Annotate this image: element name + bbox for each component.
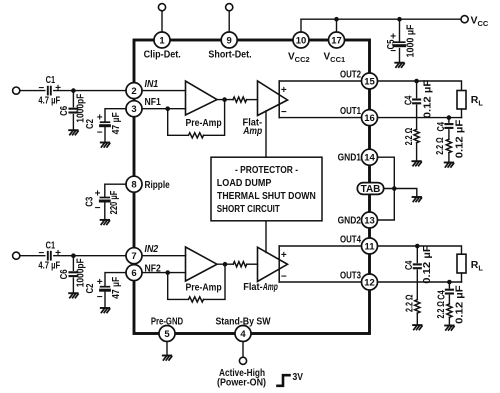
svg-text:15: 15 [364,76,375,87]
ground C6 (ch1) [69,130,78,135]
node OUT3 / Zobel B2 [447,280,452,285]
svg-text:SHORT CIRCUIT: SHORT CIRCUIT [217,203,280,215]
wire pin11 OUT4 to RL [378,246,462,254]
svg-text:+: + [281,85,287,96]
node NF1 feedback tap [165,106,170,111]
node pre-amp1 output [222,97,227,102]
ground Zobel B2 [445,326,454,331]
svg-text:0.12 µF: 0.12 µF [422,245,433,284]
wire C2 to ground (ch2) [104,292,106,307]
pin 11 (OUT4) [362,238,378,254]
wire C4 to 2.2ohm (Zobel B1) [448,130,450,139]
pin 10 (VCC2) [293,32,309,48]
svg-text:0.12 µF: 0.12 µF [423,80,434,119]
wire C4 to 2.2ohm (Zobel A2) [416,270,418,300]
wire C4 to 2.2ohm (Zobel B2) [448,295,450,304]
pin 3 (NF1) [126,101,142,117]
terminal input 2 [13,252,20,259]
node Vcc rail / pin17 [334,17,339,22]
wire OUT4 to C4 (Zobel A2) [416,246,418,263]
svg-text:5: 5 [164,329,170,340]
svg-text:C2: C2 [85,283,96,293]
ground TAB [413,197,422,202]
svg-text:C2: C2 [85,119,96,129]
terminal Short-Det. [226,4,233,11]
wire IN1 to pre-amp1 [142,90,186,92]
wire C6 to ground (ch2) [72,278,74,292]
svg-text:LOAD DUMP: LOAD DUMP [217,177,272,189]
pin 9 (Short-Det.) [221,32,237,48]
resistor 2.2ohm (Zobel A2) [415,300,420,314]
svg-text:3: 3 [131,104,136,115]
ground C2 (ch1) [101,143,110,148]
svg-text:4: 4 [240,329,246,340]
wire C3 to ground [104,203,106,219]
pin 15 (OUT2) [362,73,378,89]
ground Pre-GND [163,356,172,361]
svg-text:−: − [38,248,44,259]
wire pin1 to Clip-Det terminal [161,11,163,32]
svg-text:13: 13 [364,215,375,226]
wire Vcc rail [301,18,461,20]
pin 6 (NF2) [126,265,142,281]
node NF2 feedback tap [165,270,170,275]
svg-text:(Power-ON): (Power-ON) [217,376,266,388]
wire OUT1 to C4 (Zobel B1) [448,118,450,123]
wire pin15 OUT2 to RL [378,81,462,91]
wire node to C6 (ch1) [72,91,74,107]
svg-text:TAB: TAB [361,184,381,195]
svg-text:−: − [281,107,287,118]
wire flat-amp1 output bus [278,81,280,118]
svg-text:Flat-: Flat- [243,282,263,293]
svg-text:47 µF: 47 µF [111,277,122,299]
capacitor C2 47uF (ch2) [101,287,110,291]
ground C2 (ch2) [101,308,110,313]
svg-text:NF1: NF1 [145,97,162,108]
terminal VCC [461,16,468,23]
capacitor C3 220uF [100,198,109,202]
wire flat-amp1 to protector [265,111,267,157]
svg-text:OUT1: OUT1 [340,105,361,117]
wire flat-amp1 + to pin15 OUT2 [279,80,361,82]
svg-text:1: 1 [159,35,165,46]
svg-text:C4: C4 [436,290,447,300]
svg-text:NF2: NF2 [145,263,162,274]
pin 17 (VCC1) [329,32,345,48]
svg-text:17: 17 [331,35,342,46]
wire series resistor to flat-amp1 [247,99,258,101]
wire C4 to 2.2ohm (Zobel A1) [416,105,418,129]
svg-text:2.2 Ω: 2.2 Ω [436,301,447,319]
svg-text:1000 µF: 1000 µF [406,25,417,58]
wire pre-amp2 out to series resistor [217,263,233,265]
wire pin14 GND1 to pin13 GND2 [378,157,395,220]
wire 2.2ohm to ground (Zobel B2) [448,317,450,324]
IC body outline [134,40,370,334]
pin 1 (Clip-Det.) [154,32,170,48]
capacitor C6 1000pF (ch1) [70,109,78,113]
wire pre-amp1 out to series resistor [217,99,233,101]
wire RL to OUT3 [461,273,463,282]
wire protector to flat-amp2 [265,221,267,253]
node OUT4 / Zobel A2 [415,244,420,249]
wire 2.2ohm to ground (Zobel B1) [448,153,450,162]
svg-text:−: − [390,46,396,57]
svg-text:2.2 Ω: 2.2 Ω [435,137,446,155]
svg-text:16: 16 [364,113,375,124]
wire pin17 to Vcc rail [336,19,338,32]
resistor 2.2ohm (Zobel B1) [446,139,451,153]
svg-text:GND2: GND2 [338,215,362,227]
svg-text:IN1: IN1 [145,79,159,90]
wire flat-amp2 - to pin12 OUT3 [279,281,361,283]
svg-text:220 µF: 220 µF [109,191,120,215]
svg-text:2.2 Ω: 2.2 Ω [404,128,415,146]
wire TAB to ground [384,189,417,197]
terminal Clip-Det. [158,4,165,11]
svg-text:Amp: Amp [242,126,262,137]
node OUT2 / Zobel A1 [414,79,419,84]
svg-text:OUT4: OUT4 [340,234,361,246]
svg-text:C4: C4 [436,122,447,132]
svg-text:4.7 µF: 4.7 µF [38,96,60,107]
wire pin3 NF1 to C2 (ch1) [105,109,126,121]
node input1 / C6 [71,88,76,93]
pin 4 (Stand-By SW) [235,326,251,342]
svg-text:+: + [390,31,396,42]
ground Zobel B1 [445,163,454,168]
svg-text:Short-Det.: Short-Det. [208,49,251,61]
pin 7 (IN2) [126,248,142,264]
svg-text:−: − [281,272,287,283]
pin 13 (GND2) [362,212,378,228]
wire 2.2ohm to ground (Zobel A2) [416,313,418,324]
op-amp Flat-Amp 1 [258,81,288,116]
resistor series (ch1) [233,97,247,102]
svg-text:10: 10 [296,35,307,46]
resistor feedback (pre-amp1) [189,133,204,138]
node input2 / C6 [71,253,76,258]
svg-text:C4: C4 [404,260,415,270]
svg-text:12: 12 [364,277,375,288]
svg-text:14: 14 [364,153,375,164]
wire input2 to C1 [20,255,45,257]
svg-text:1000pF: 1000pF [76,94,87,123]
resistor 2.2ohm (Zobel A1) [414,129,419,143]
svg-text:OUT3: OUT3 [340,270,361,282]
ground Zobel A2 [413,325,422,330]
wire flat-amp2 + to pin11 OUT4 [279,245,361,247]
svg-text:+: + [97,277,103,288]
capacitor C1 4.7uF (ch2) [48,252,51,260]
node Vcc rail / C5 [397,17,402,22]
op-amp Pre-Amp 2 [186,247,218,281]
svg-text:−: − [97,292,103,303]
signal step (stand-by control) [278,375,290,386]
node OUT1 / Zobel B1 [447,115,452,120]
protector block [211,157,322,221]
wire OUT3 to C4 (Zobel B2) [448,282,450,288]
wire flat-amp1 - to pin16 OUT1 [279,117,361,119]
svg-text:−: − [97,127,103,138]
svg-text:Pre-Amp: Pre-Amp [186,281,222,293]
capacitor C4 0.12uF (Zobel B1) [445,124,452,128]
node pre-amp2 output [223,262,228,267]
svg-text:Amp: Amp [262,282,278,293]
svg-text:7: 7 [131,251,136,262]
svg-text:GND1: GND1 [338,152,362,164]
svg-text:9: 9 [227,35,232,46]
wire node to C6 (ch2) [72,256,74,271]
capacitor C4 0.12uF (Zobel A1) [413,100,420,104]
svg-text:THERMAL SHUT DOWN: THERMAL SHUT DOWN [217,190,316,202]
wire flat-amp2 output bus [278,246,280,282]
svg-text:+: + [55,83,61,94]
wire C1 to pin2 IN1 [54,90,126,92]
wire pin4 Stand-By to terminal [242,342,244,358]
wire 2.2ohm to ground (Zobel A1) [416,143,418,161]
svg-text:C6: C6 [59,269,70,279]
capacitor C2 47uF (ch1) [101,122,110,126]
ground C3 [101,220,110,225]
svg-text:+: + [281,250,287,261]
op-amp Flat-Amp 2 [258,247,288,281]
node TAB / GND bus [392,186,397,191]
resistor RL (ch1 load) [457,91,466,110]
svg-text:1000pF: 1000pF [76,258,87,287]
wire pin6 NF2 to C2 (ch2) [105,273,126,286]
capacitor C4 0.12uF (Zobel A2) [414,264,421,268]
wire feedback up to output (ch2) [204,264,226,299]
wire feedback down (ch1) [168,109,189,136]
wire pin9 to Short-Det terminal [228,11,230,32]
capacitor C4 0.12uF (Zobel B2) [446,290,453,294]
pin 5 (Pre-GND) [159,326,175,342]
wire RL to OUT1 [461,109,463,118]
svg-text:- PROTECTOR -: - PROTECTOR - [235,164,298,176]
svg-text:−: − [38,83,44,94]
svg-text:3V: 3V [293,372,304,383]
svg-text:2.2 Ω: 2.2 Ω [405,294,416,312]
wire C2 to ground (ch1) [104,127,106,141]
wire pin10 to Vcc rail [300,19,302,32]
svg-text:C3: C3 [85,196,96,206]
wire feedback down (ch2) [168,273,189,300]
wire IN2 to pre-amp2 [142,255,186,257]
wire OUT2 to C4 (Zobel A1) [416,81,418,98]
capacitor C1 4.7uF (ch1) [48,87,51,95]
terminal Stand-By [239,357,246,364]
pin 8 (Ripple) [126,176,142,192]
svg-text:+: + [97,113,103,124]
op-amp Pre-Amp 1 [186,81,218,115]
wire series resistor to flat-amp2 [247,263,258,265]
pin 14 (GND1) [362,149,378,165]
wire pin8 Ripple to C3 [105,184,126,196]
ground C5 [395,63,404,67]
svg-text:0.12 µF: 0.12 µF [455,285,466,324]
svg-text:2: 2 [131,86,136,97]
wire feedback up to output (ch1) [204,100,225,136]
resistor series (ch2) [233,262,247,267]
svg-text:Ripple: Ripple [145,179,170,191]
svg-text:OUT2: OUT2 [340,69,361,81]
ground Zobel A1 [412,161,421,166]
svg-text:4.7 µF: 4.7 µF [38,261,60,272]
svg-text:11: 11 [364,241,375,252]
wire NF1 to pre-amp1 [142,108,186,110]
svg-text:+: + [55,248,61,259]
capacitor C6 1000pF (ch2) [70,272,78,276]
wire C5 to ground [399,49,401,62]
svg-text:8: 8 [131,180,136,191]
svg-text:C1: C1 [46,75,56,86]
ground C6 (ch2) [69,293,78,298]
wire NF2 to pre-amp2 [142,272,186,274]
svg-text:47 µF: 47 µF [111,112,122,134]
pin 2 (IN1) [126,83,142,99]
svg-text:IN2: IN2 [145,244,159,255]
capacitor C5 1000uF [394,42,404,46]
wire Vcc rail to C5 [399,19,401,42]
TAB [357,183,383,196]
wire pin5 Pre-GND to ground [166,342,168,355]
svg-text:Clip-Det.: Clip-Det. [144,49,181,61]
svg-text:6: 6 [131,268,136,279]
svg-text:C1: C1 [46,240,56,251]
pin 16 (OUT1) [362,110,378,126]
wire pin16 OUT1 to RL [378,117,462,119]
wire C1 to pin7 IN2 [54,255,126,257]
terminal input 1 [13,87,20,94]
svg-text:C6: C6 [59,106,70,116]
resistor feedback (pre-amp2) [189,297,204,302]
svg-text:C4: C4 [404,95,415,105]
wire pin12 OUT3 to RL [378,281,462,283]
svg-text:Pre-Amp: Pre-Amp [186,117,222,129]
resistor RL (ch2 load) [457,254,466,273]
wire C6 to ground (ch1) [72,115,74,130]
wire input1 to C1 [20,90,45,92]
pin 12 (OUT3) [362,274,378,290]
resistor 2.2ohm (Zobel B2) [447,304,452,318]
svg-text:0.12 µF: 0.12 µF [454,120,465,159]
